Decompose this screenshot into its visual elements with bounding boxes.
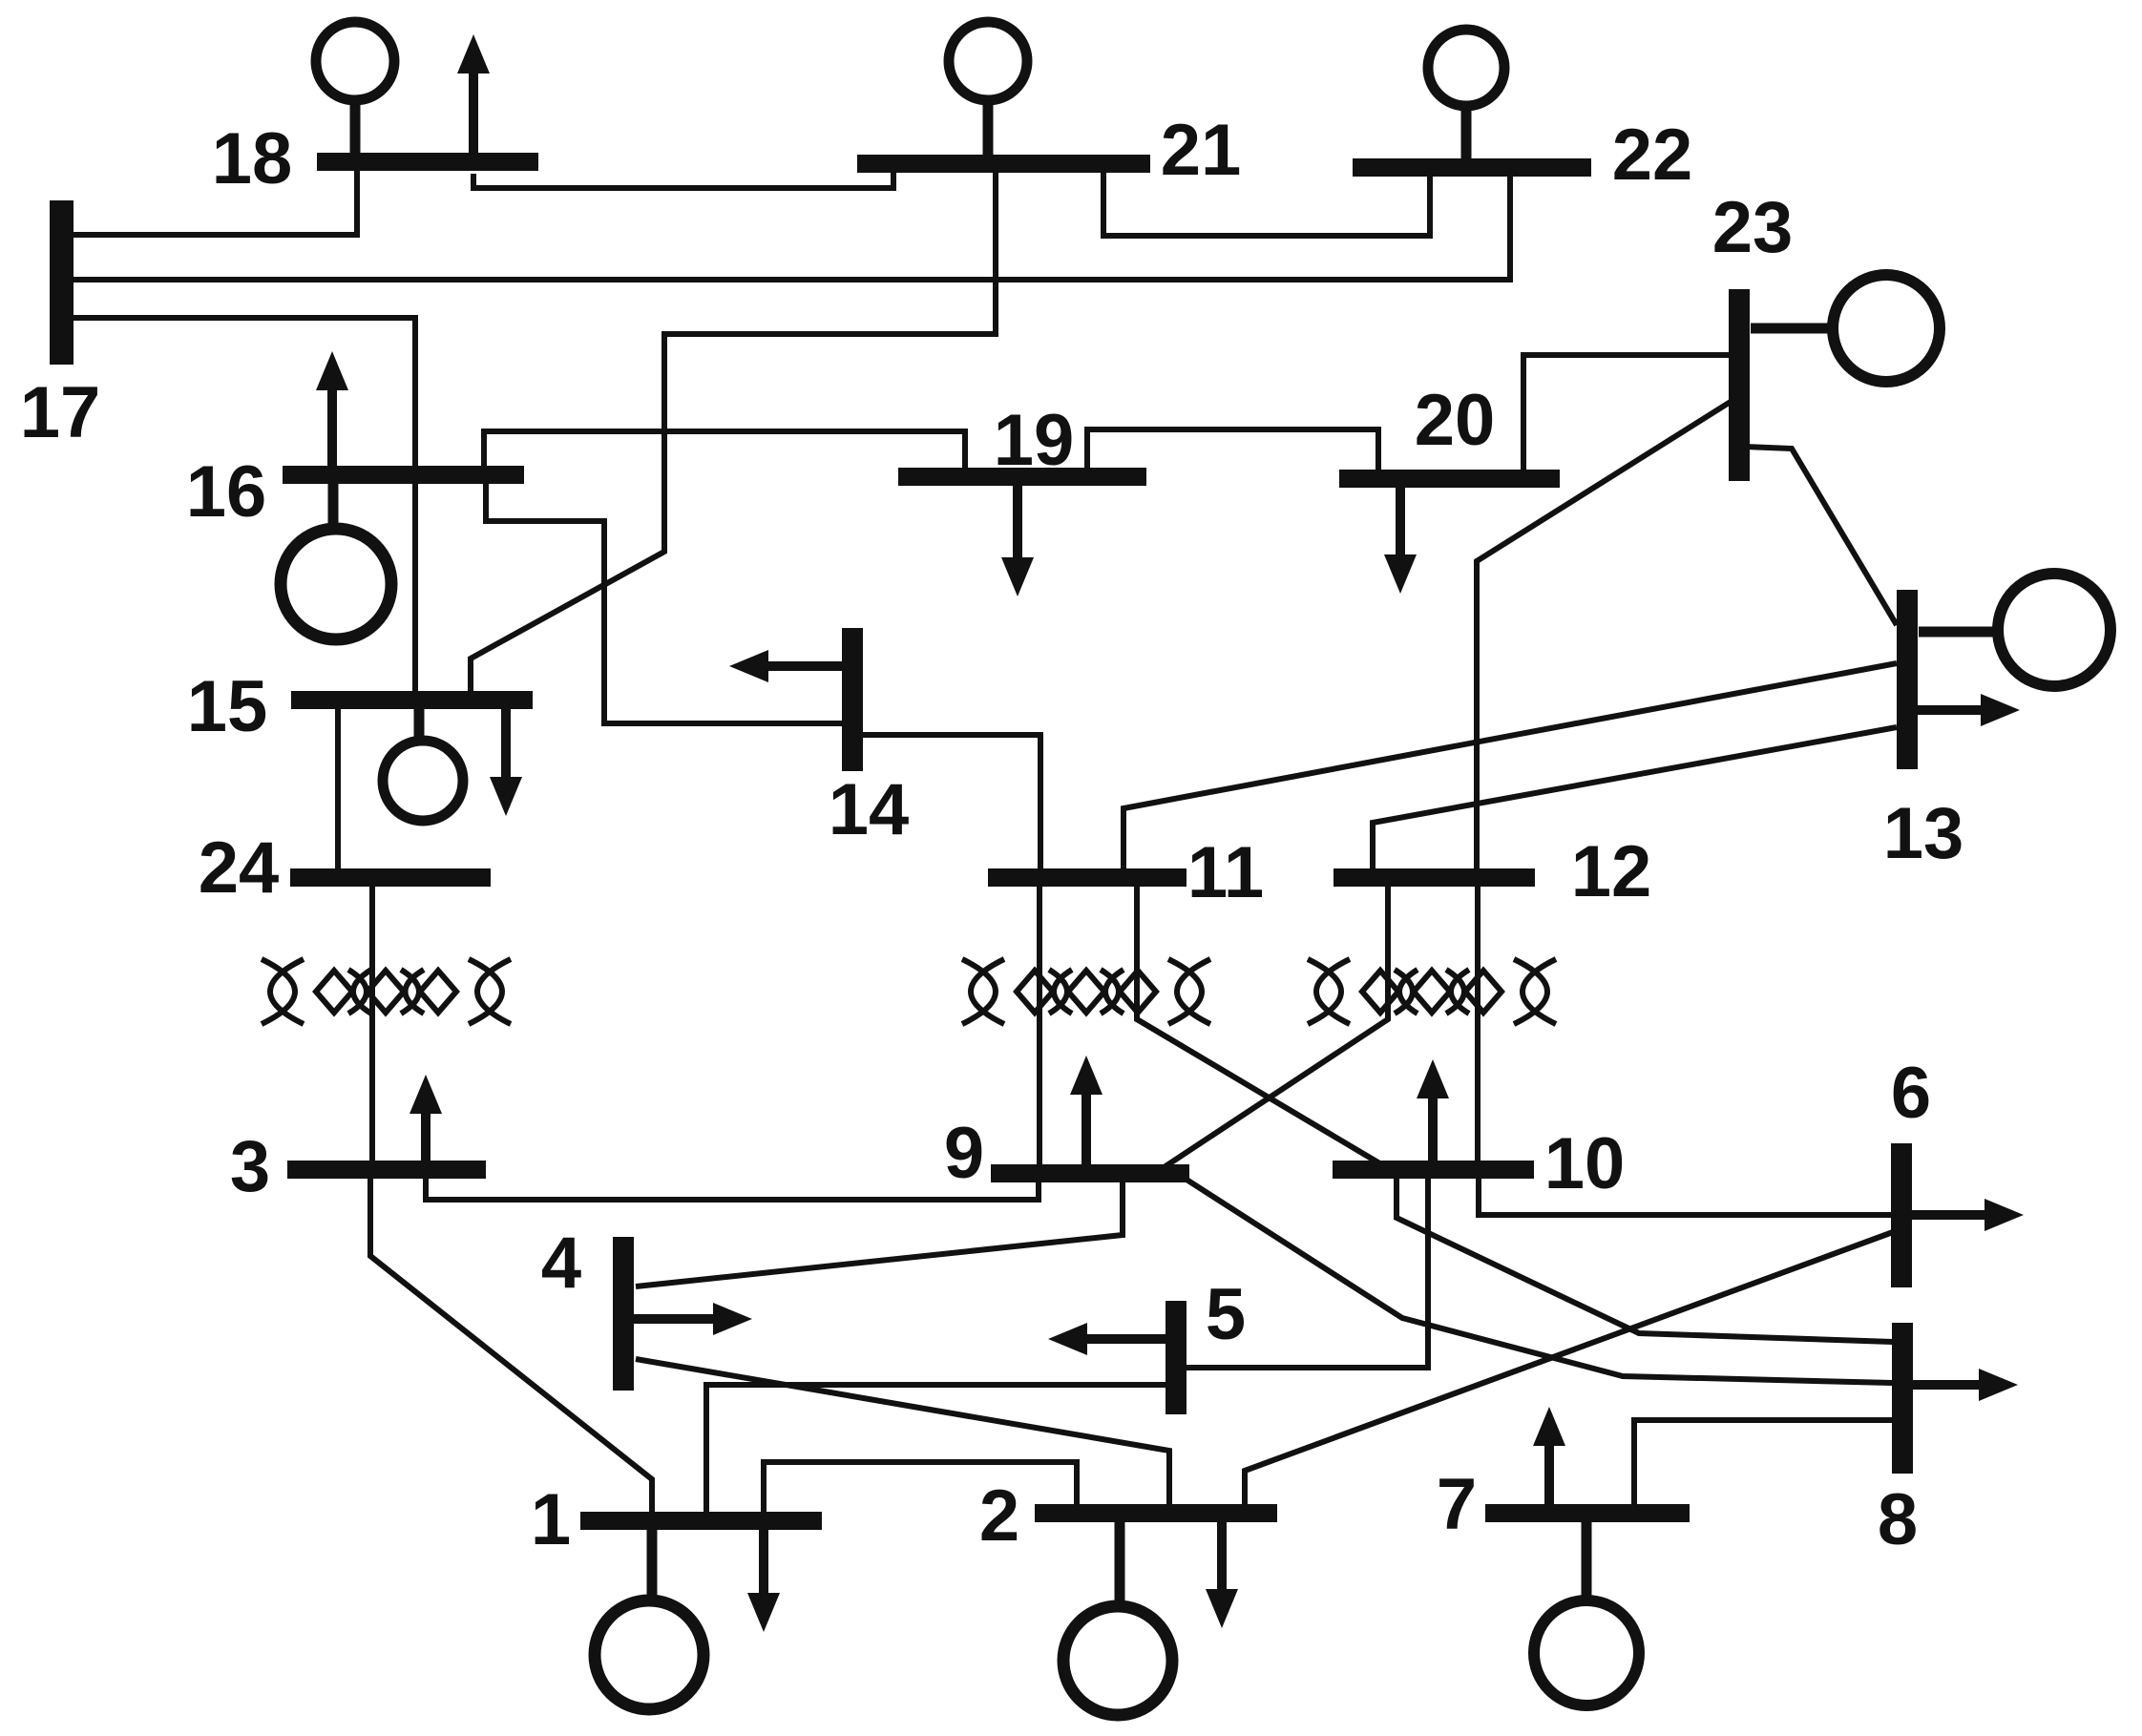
svg-text:20: 20 <box>1415 380 1496 461</box>
wire 12-23 <box>1477 400 1733 871</box>
wire 1-2 <box>764 1462 1077 1516</box>
bus 20 bar <box>1339 470 1560 488</box>
wire 20-23 circuit 1 <box>1523 355 1733 474</box>
bus 21 bar <box>857 155 1150 173</box>
wire 9-11 transformer leg <box>1037 884 1042 1168</box>
svg-text:17: 17 <box>20 372 101 453</box>
wire 10-11 transformer leg <box>1137 884 1381 1164</box>
wire 2-6 <box>1245 1232 1893 1507</box>
load arrow bus 10 (up) <box>1417 1059 1449 1162</box>
generator at bus 15 <box>383 706 463 821</box>
load arrow bus 5 (left) <box>1048 1323 1166 1355</box>
bus 22 bar <box>1353 158 1591 177</box>
generator at bus 21 <box>949 22 1027 160</box>
svg-text:24: 24 <box>199 827 280 909</box>
wire 18-21 <box>473 170 893 188</box>
wire 8-10 <box>1396 1176 1893 1342</box>
generator at bus 23 <box>1751 275 1940 382</box>
wire 16-15 <box>412 481 418 694</box>
wire 24-3 <box>369 884 375 1164</box>
wire 3-9 <box>426 1178 1039 1200</box>
svg-text:7: 7 <box>1437 1464 1477 1545</box>
bus 12 bar <box>1333 868 1535 887</box>
wire 4-9 <box>636 1178 1123 1286</box>
svg-text:3: 3 <box>230 1126 270 1207</box>
generator at bus 2 <box>1063 1519 1172 1715</box>
bus 15 bar <box>291 691 533 709</box>
wire 13-23 <box>1745 447 1897 625</box>
bus 3 bar <box>287 1161 486 1179</box>
wire 12-13 <box>1373 727 1897 871</box>
wire 14-16 <box>486 481 846 723</box>
svg-text:21: 21 <box>1161 110 1242 191</box>
svg-text:19: 19 <box>994 400 1075 481</box>
bus 5 bar <box>1165 1301 1186 1414</box>
generator at bus 7 <box>1534 1519 1639 1705</box>
load arrow bus 13 (right) <box>1917 694 2020 726</box>
wire 21-22 <box>1103 170 1430 236</box>
svg-text:23: 23 <box>1712 187 1794 268</box>
svg-text:22: 22 <box>1612 115 1693 196</box>
load arrow bus 7 (up) <box>1533 1407 1565 1506</box>
bus 7 bar <box>1485 1504 1690 1522</box>
bus 24 bar <box>290 868 491 887</box>
bus 17 bar <box>50 200 73 365</box>
transformer bank 3-24 <box>262 959 511 1024</box>
bus 6 bar <box>1891 1143 1912 1287</box>
wire 1-3 <box>370 1178 652 1516</box>
svg-text:2: 2 <box>979 1475 1019 1557</box>
svg-text:15: 15 <box>187 666 268 747</box>
wire 7-8 <box>1634 1420 1893 1508</box>
bus 2 bar <box>1035 1504 1277 1522</box>
wire 11-14 <box>859 735 1040 871</box>
wire 10-12 transformer leg <box>1475 884 1480 1164</box>
wire 5-10 <box>1186 1176 1428 1368</box>
wire 17-22 <box>73 174 1510 280</box>
bus 18 bar <box>317 153 538 171</box>
svg-text:9: 9 <box>944 1113 984 1194</box>
wire 17-16 <box>73 318 415 470</box>
wire 11-13 <box>1123 663 1897 871</box>
svg-text:8: 8 <box>1878 1479 1918 1560</box>
bus 10 bar <box>1333 1161 1534 1179</box>
svg-text:12: 12 <box>1571 831 1652 912</box>
load arrow bus 4 (right) <box>634 1303 752 1335</box>
wire 16-19 <box>484 431 965 471</box>
bus 11 bar <box>988 868 1186 887</box>
generator at bus 22 <box>1428 30 1504 163</box>
generator at bus 16 <box>281 481 391 639</box>
svg-text:18: 18 <box>212 118 293 199</box>
load arrow bus 2 (down) <box>1206 1519 1238 1628</box>
svg-text:14: 14 <box>829 769 910 850</box>
svg-text:16: 16 <box>186 451 267 533</box>
load arrow bus 9 (up) <box>1070 1056 1102 1166</box>
load arrow bus 6 (right) <box>1911 1199 2024 1231</box>
bus 16 bar <box>283 466 524 484</box>
svg-text:6: 6 <box>1891 1053 1931 1134</box>
load arrow bus 3 (up) <box>409 1075 442 1178</box>
load arrow bus 1 (down) <box>747 1529 780 1632</box>
wire 9-12 transformer leg <box>1163 884 1388 1168</box>
wire 15-24 <box>335 706 341 871</box>
wire 10-6 <box>1479 1176 1893 1215</box>
svg-text:5: 5 <box>1206 1274 1246 1355</box>
wire 1-5 <box>706 1385 1166 1516</box>
load arrow bus 8 (right) <box>1912 1369 2018 1401</box>
svg-text:4: 4 <box>541 1223 581 1304</box>
svg-text:1: 1 <box>531 1479 571 1560</box>
svg-text:13: 13 <box>1883 793 1964 874</box>
transformer bank 9-11 / 10-11 <box>962 959 1210 1024</box>
wire 8-9 <box>1184 1178 1893 1383</box>
wire 2-4 <box>636 1359 1169 1507</box>
load arrow bus 18 (up) <box>457 34 490 158</box>
wire 15-21 <box>471 170 996 694</box>
load arrow bus 20 (down) <box>1384 485 1417 594</box>
bus 23 bar <box>1729 289 1750 481</box>
generator at bus 13 <box>1919 574 2110 686</box>
bus 19 bar <box>898 468 1146 486</box>
load arrow bus 14 (left) <box>729 650 844 682</box>
bus 1 bar <box>580 1512 822 1530</box>
generator at bus 1 <box>595 1527 703 1709</box>
bus 4 bar <box>613 1237 634 1391</box>
bus 14 bar <box>842 628 863 771</box>
bus 13 bar <box>1897 590 1918 769</box>
load arrow bus 19 (down) <box>1001 482 1034 596</box>
svg-text:11: 11 <box>1187 832 1264 913</box>
wire 19-20 <box>1087 429 1378 474</box>
load arrow bus 16 (up) <box>316 351 348 470</box>
svg-text:10: 10 <box>1544 1123 1626 1204</box>
bus 8 bar <box>1892 1323 1913 1474</box>
bus 9 bar <box>991 1164 1189 1182</box>
transformer bank 9-12 / 10-12 <box>1308 959 1556 1024</box>
generator at bus 18 <box>316 22 394 158</box>
wire 17-18 <box>73 170 357 235</box>
load arrow bus 15 (down) <box>490 706 522 816</box>
